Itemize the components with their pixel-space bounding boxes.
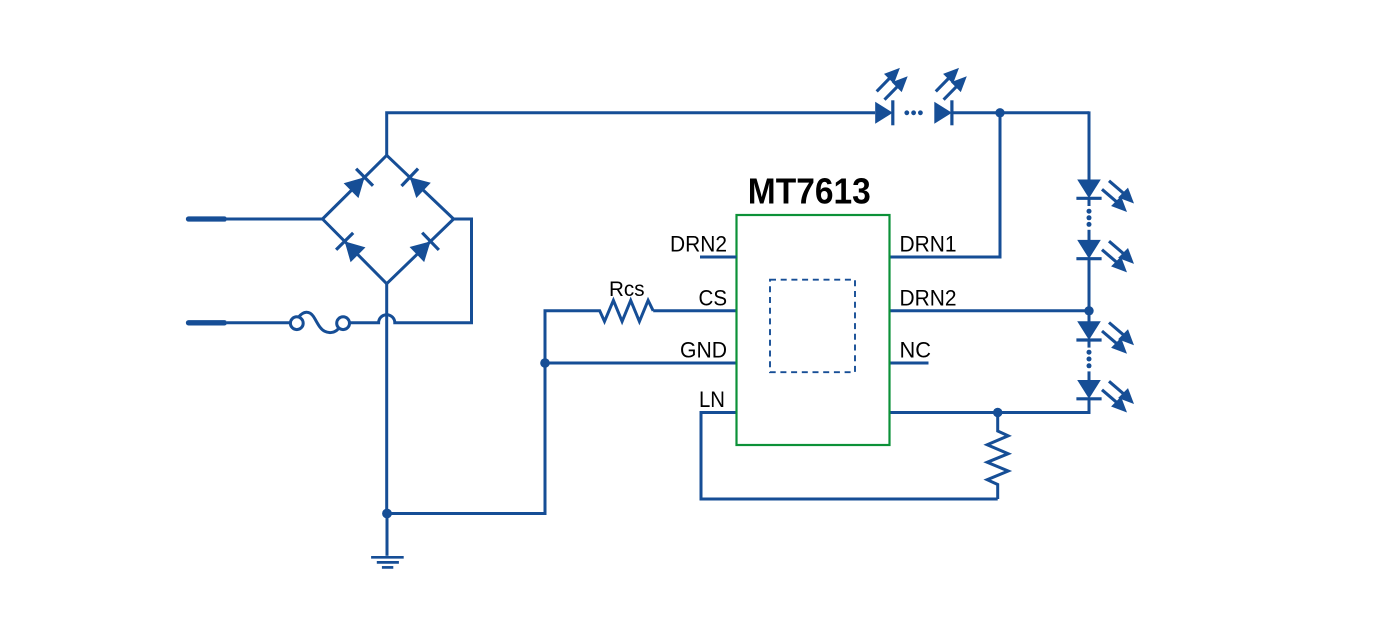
wire GND node to IC pin GND xyxy=(545,362,737,365)
IC U1 MT7613 body xyxy=(737,215,890,445)
pin NC stub xyxy=(890,362,929,365)
wire stub below LED D7 xyxy=(1088,198,1091,206)
terminal AC input upper xyxy=(189,216,225,221)
svg-text:LN: LN xyxy=(699,387,725,412)
wire upper input to bridge left vertex xyxy=(227,218,323,221)
terminal AC input lower xyxy=(189,320,225,325)
wire LED D8 to DRN2 node xyxy=(1088,259,1091,311)
LED D7 (right string) xyxy=(1077,180,1101,199)
svg-text:DRN1: DRN1 xyxy=(900,232,957,257)
fuse F1 xyxy=(290,317,303,330)
wire DRN2 node to LED D9 xyxy=(1088,311,1091,322)
LED D5 (top string) xyxy=(875,102,893,124)
wire GND node down to ground rail xyxy=(387,363,545,514)
wire fuse to bridge right vertex (hop over ground drop) xyxy=(350,219,472,323)
wire IC pin DRN2 (right) to LED string xyxy=(890,309,1091,312)
LED D9 (right string) xyxy=(1077,321,1101,340)
wire bridge bottom to ground node xyxy=(385,284,388,514)
pin DRN2 (left) stub xyxy=(700,256,737,259)
wire LED D10 to bottom rail xyxy=(1088,399,1091,414)
wire IC pin CS to Rcs xyxy=(653,309,736,312)
wire lower input to fuse xyxy=(227,321,290,324)
diode D1 (bridge upper-left) xyxy=(344,177,365,198)
diode D3 (bridge lower-left) xyxy=(345,241,366,262)
dots right LED string upper continuation xyxy=(1087,209,1092,214)
diode D4 (bridge lower-right) xyxy=(410,241,431,262)
wire top bus down right string xyxy=(1088,111,1091,179)
node junction GND tap xyxy=(540,358,550,368)
wire bridge side bottom-left xyxy=(323,219,387,284)
dots right LED string lower continuation xyxy=(1087,350,1092,355)
svg-text:DRN2: DRN2 xyxy=(670,232,727,257)
svg-text:NC: NC xyxy=(900,338,932,363)
wire bridge side right-bottom xyxy=(387,219,454,284)
svg-text:CS: CS xyxy=(699,285,728,310)
LED D8 (right string) xyxy=(1077,240,1101,259)
wire LED string to DRN1 node xyxy=(952,111,1089,114)
ground xyxy=(386,514,389,556)
LED D6 (top string) xyxy=(934,102,952,124)
node junction right string (DRN2 tap) xyxy=(1084,306,1093,315)
node junction ground xyxy=(382,509,392,519)
svg-text:DRN2: DRN2 xyxy=(900,285,957,310)
wire dots to LED D8 xyxy=(1088,230,1091,241)
wire DRN1 node to IC pin DRN1 xyxy=(890,113,1001,257)
wire bridge side top-right xyxy=(387,155,454,219)
IC internal dashed block xyxy=(770,280,855,373)
svg-text:GND: GND xyxy=(680,338,727,363)
svg-text:MT7613: MT7613 xyxy=(748,171,871,212)
wire LN rail (resistor bottom to LN riser) xyxy=(701,413,998,500)
LED D10 (right string) xyxy=(1077,380,1101,399)
diode D2 (bridge upper-right) xyxy=(410,177,431,198)
node junction resistor top xyxy=(993,408,1002,417)
dots top LED string continuation xyxy=(904,110,909,115)
svg-text:Rcs: Rcs xyxy=(609,277,645,301)
wire stub below LED D9 xyxy=(1088,340,1091,348)
wire bridge top output to LED string xyxy=(387,113,876,156)
wire IC bottom pin to LED string bottom xyxy=(890,411,1091,414)
wire bridge side left-top xyxy=(323,155,387,219)
wire dots to LED D10 xyxy=(1088,371,1091,380)
resistor R1 (LED current ballast) xyxy=(987,413,1008,500)
resistor Rcs (current sense) xyxy=(545,300,653,363)
node junction top (DRN1 tap) xyxy=(995,108,1004,117)
